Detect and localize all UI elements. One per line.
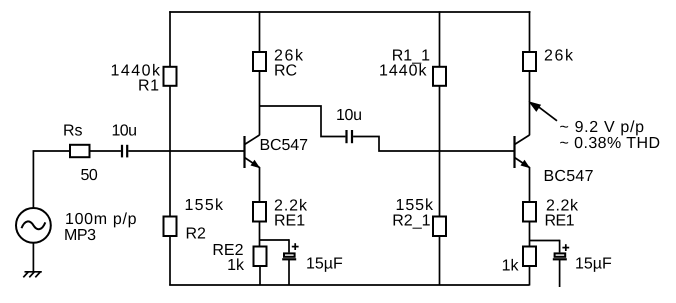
resistor R1 [164, 67, 177, 86]
svg-text:50: 50 [81, 167, 98, 184]
wire RC bottom / Q1 collector [259, 71, 261, 135]
wire R2_1 bottom lead [439, 236, 441, 286]
svg-text:15µF: 15µF [306, 256, 343, 273]
svg-text:~ 0.38% THD: ~ 0.38% THD [560, 135, 661, 152]
wire R2 bottom lead [169, 236, 171, 286]
svg-text:RC: RC [274, 63, 297, 80]
resistor RC 26k [253, 52, 266, 71]
svg-text:100m p/p: 100m p/p [65, 211, 137, 228]
wire C1 to Q1 base [128, 150, 244, 152]
svg-text:1440k: 1440k [379, 63, 428, 80]
ground [23, 243, 42, 277]
svg-text:Rs: Rs [63, 123, 83, 140]
wire R1_1 top lead [439, 11, 441, 67]
wire emitter node 2 to C4 [530, 240, 560, 242]
resistor R2 [164, 217, 177, 237]
wire Q2 emitter to RE1_1 [529, 167, 531, 202]
svg-text:155k: 155k [185, 197, 225, 214]
svg-text:RE1: RE1 [545, 213, 575, 230]
wire RE2 bottom lead [259, 266, 261, 286]
resistor Rs [70, 145, 90, 157]
wire RC2 bottom / Q2 collector [529, 71, 531, 135]
resistor RE1 [253, 202, 266, 222]
svg-text:10u: 10u [336, 107, 362, 124]
wire emitter node to C3 [260, 239, 290, 241]
resistor RE1 second stage [523, 202, 536, 222]
resistor R2_1 [433, 217, 446, 237]
resistor 26k second stage [523, 52, 536, 71]
svg-text:R2: R2 [186, 226, 207, 243]
svg-text:~ 9.2 V p/p: ~ 9.2 V p/p [560, 119, 645, 136]
wire R1 bottom to R2 top through input node [169, 86, 171, 217]
capacitor C1 10u [122, 145, 127, 158]
svg-text:10u: 10u [112, 123, 138, 140]
resistor RE2 1k [254, 247, 267, 267]
transistor Q1 BC547 [245, 135, 260, 168]
svg-text:BC547: BC547 [260, 137, 309, 154]
signal source MP3 [16, 208, 51, 243]
wire RC2 top lead [529, 11, 531, 52]
svg-text:1k: 1k [227, 257, 245, 274]
wire Q1 collector node to C2 [260, 106, 346, 137]
wire RE1 bottom to RE2 top [259, 221, 261, 247]
svg-text:155k: 155k [396, 197, 435, 214]
svg-text:MP3: MP3 [64, 227, 96, 244]
wire R1 top lead [169, 11, 171, 67]
wire source top lead to Rs [33, 151, 70, 208]
wire top power rail [169, 11, 530, 13]
svg-text:26k: 26k [544, 48, 574, 65]
capacitor C3 15uF electrolytic [282, 239, 298, 285]
capacitor C2 10u [347, 130, 353, 143]
resistor R1_1 [433, 67, 446, 86]
svg-text:R2_1: R2_1 [392, 213, 430, 230]
wire bottom ground rail [169, 284, 529, 286]
transistor Q2 BC547 [515, 135, 530, 168]
svg-text:1k: 1k [502, 258, 520, 275]
svg-text:RE1: RE1 [274, 213, 305, 230]
wire Rs to C1 [90, 150, 121, 152]
wire C2 to Q2 base [353, 137, 514, 152]
output annotation arrow [530, 102, 557, 121]
svg-text:BC547: BC547 [544, 168, 594, 185]
wire RC top lead [259, 11, 261, 52]
resistor 1k second stage [523, 247, 536, 267]
svg-text:15µF: 15µF [575, 256, 612, 273]
wire Q1 emitter to RE1 [259, 167, 261, 202]
wire 1k bottom lead to rail corner [529, 266, 531, 286]
wire RE1_1 bottom to 1k top [529, 221, 531, 247]
svg-text:R1: R1 [138, 78, 159, 95]
capacitor C4 15uF electrolytic [553, 240, 569, 287]
wire R1_1 bottom to R2_1 top through base node [439, 86, 441, 217]
